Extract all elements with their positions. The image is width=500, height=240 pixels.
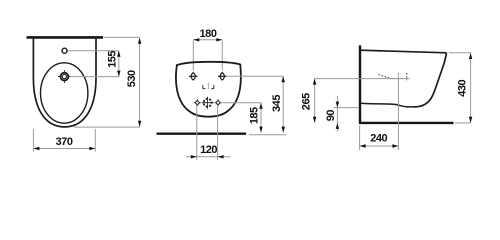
bidet body outline (rear view) [176, 62, 241, 117]
extension for 265 (supply level) [315, 78, 410, 80]
fixing hole right (rear view) [218, 73, 227, 80]
svg-text:185: 185 [249, 107, 261, 124]
svg-text:370: 370 [55, 136, 72, 148]
wall edge line (thick top line, left view) [27, 36, 104, 39]
extension for 90 (underside level) [334, 107, 360, 109]
extension line right for 120 [217, 105, 219, 160]
dimension 90 line with outside arrows [336, 96, 339, 132]
extension line right for 240 [397, 73, 399, 151]
bidet front curve (side view) [414, 53, 447, 107]
extension top for 430 [449, 52, 471, 54]
inlet diamond left (rear view) [194, 99, 201, 106]
extension line bottom right (rear view) [249, 134, 287, 136]
leader line from tap hole [68, 50, 119, 52]
dimension 180 line with arrows [193, 38, 222, 41]
extension line left for 370 [32, 129, 34, 152]
dimension 120 line with outside arrows [186, 155, 231, 158]
bottom datum thick line (rear view) [157, 133, 247, 135]
svg-text:430: 430 [457, 79, 469, 96]
bidet inner rim oval (left view) [40, 63, 87, 123]
dimension 155 line with arrows [117, 51, 120, 77]
wall and floor thick L line [359, 45, 454, 123]
dimension 265 line with arrows [313, 79, 316, 123]
extension line top for 530 [104, 36, 141, 38]
svg-text:180: 180 [199, 28, 216, 40]
bidet top edge (side view) [361, 50, 447, 53]
extension line left for 180 [192, 40, 194, 70]
dimension 430 line with arrows [469, 53, 472, 123]
leader line from drain hole [71, 76, 119, 78]
bidet outer body outline (left view) [33, 39, 96, 127]
hidden supply dashes (side view) [379, 73, 407, 80]
dimension 370 line with arrows [33, 147, 95, 150]
svg-text:120: 120 [200, 144, 217, 156]
bidet underside line (side view) [361, 103, 414, 107]
svg-text:240: 240 [370, 133, 387, 145]
dimension 530 line with arrows [138, 38, 141, 127]
leader line from right diamond to 185 [221, 102, 261, 104]
drain hole symbol (left view) [58, 70, 71, 83]
svg-text:345: 345 [271, 95, 283, 112]
extension line left for 120 [196, 105, 198, 160]
extension line left for 240 [359, 126, 361, 151]
extension line right for 370 [94, 129, 96, 152]
dimension 240 line with arrows [360, 144, 399, 147]
extension line right for 180 [221, 40, 223, 70]
dimension 345 line with arrows [282, 76, 285, 132]
inlet diamond right (rear view) [215, 99, 222, 106]
svg-text:90: 90 [325, 110, 337, 122]
dimension 185 line with arrows [259, 103, 262, 133]
fixing hole left (rear view) [189, 73, 198, 80]
leader line from right fixing hole to 345 [227, 75, 283, 77]
extension bottom for 430 [455, 122, 471, 124]
drain hole symbol (rear view) [202, 97, 214, 109]
svg-text:155: 155 [107, 51, 119, 68]
extension line bottom for 530 [74, 126, 140, 128]
hidden detail dashes (overflow marks, rear view) [203, 83, 214, 90]
svg-text:265: 265 [300, 93, 312, 110]
svg-text:530: 530 [126, 70, 138, 87]
tap hole circle [62, 48, 67, 53]
